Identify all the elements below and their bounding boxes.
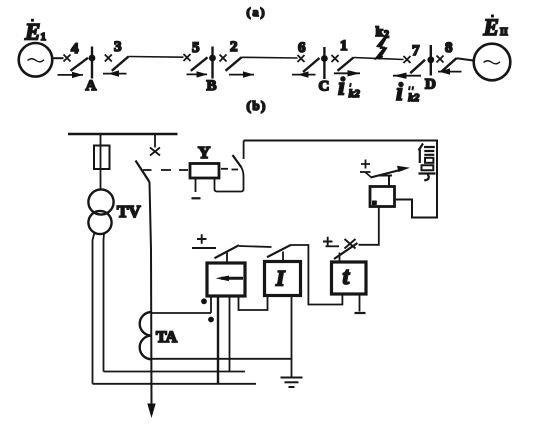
current arrow I''k2 under breaker 7 bbox=[393, 73, 421, 79]
svg-text:II: II bbox=[500, 27, 508, 38]
svg-text:k: k bbox=[376, 25, 384, 40]
circuit breaker QF blade bbox=[136, 161, 150, 183]
breaker 3 contact x bbox=[105, 55, 112, 62]
circuit breaker QF stub bbox=[154, 134, 156, 148]
trip coil Y box bbox=[190, 164, 219, 179]
TA secondary top lead bbox=[152, 312, 212, 314]
breaker 4 contact x bbox=[64, 55, 71, 62]
svg-text:C: C bbox=[319, 79, 330, 95]
svg-text:A: A bbox=[86, 78, 97, 94]
svg-text:1: 1 bbox=[340, 38, 348, 54]
breaker 3 blade bbox=[112, 57, 129, 71]
ground symbol bbox=[281, 378, 303, 388]
breaker 2 blade bbox=[226, 57, 242, 71]
trip linkage dashed bbox=[143, 169, 188, 171]
wire t-contact to signal relay bbox=[359, 207, 379, 245]
voltage transformer TV bbox=[88, 189, 113, 234]
line A-B bbox=[129, 56, 184, 59]
arrow under breaker 4 bbox=[58, 72, 84, 78]
breaker 6 blade bbox=[303, 58, 320, 72]
bus D bbox=[427, 45, 434, 76]
time relay contact plus bbox=[323, 237, 339, 247]
time relay contact x mark bbox=[345, 239, 356, 249]
svg-text:E: E bbox=[483, 15, 499, 40]
current relay contact blade bbox=[267, 245, 291, 261]
KA ground lead bbox=[291, 296, 293, 377]
svg-text:8: 8 bbox=[445, 40, 453, 56]
fault k2 lightning bolt bbox=[375, 37, 387, 59]
time relay box KT label t bbox=[332, 262, 367, 294]
svg-text:TA: TA bbox=[156, 329, 177, 346]
svg-text:I: I bbox=[275, 266, 286, 291]
svg-text:t: t bbox=[343, 264, 351, 290]
svg-text:D: D bbox=[425, 77, 436, 93]
signal relay notch bbox=[372, 201, 377, 206]
arrow under breaker 3 bbox=[103, 70, 127, 76]
junction dot 2 bbox=[208, 317, 214, 323]
svg-text:Y: Y bbox=[198, 143, 210, 162]
arrow under breaker 5 bbox=[187, 71, 208, 77]
breaker 7 contact x bbox=[404, 56, 411, 63]
fault k2 label bbox=[376, 25, 390, 41]
bus B bbox=[209, 47, 216, 79]
breaker 7 blade bbox=[410, 60, 425, 73]
bus C bbox=[321, 47, 328, 79]
time relay minus lead bbox=[355, 294, 366, 313]
label I''k2 bbox=[396, 79, 420, 106]
Y contact blade bbox=[233, 155, 242, 168]
svg-text:4: 4 bbox=[71, 41, 79, 57]
time relay contact blade bbox=[334, 243, 358, 261]
svg-text:(b): (b) bbox=[247, 98, 267, 113]
TA return rail bbox=[152, 358, 292, 360]
svg-text:5: 5 bbox=[192, 40, 200, 56]
fuse FU bbox=[94, 134, 110, 190]
wire contact1 to contact2 bbox=[239, 246, 272, 247]
svg-text:i: i bbox=[338, 74, 345, 101]
svg-text:1: 1 bbox=[41, 31, 47, 43]
svg-text:TV: TV bbox=[117, 202, 141, 221]
breaker 4 blade bbox=[71, 58, 89, 71]
svg-text:6: 6 bbox=[298, 40, 306, 56]
label E_II bbox=[483, 15, 508, 41]
TV secondary lead right bbox=[103, 234, 106, 372]
arrow under breaker 2 bbox=[229, 71, 254, 77]
Y minus sign bbox=[192, 197, 201, 199]
wire breaker 8 to gen2 bbox=[457, 58, 474, 60]
line B-C bbox=[242, 56, 298, 59]
TV secondary lead left bbox=[93, 233, 95, 384]
label I'k2 bbox=[338, 74, 360, 101]
Y right lead dashes bbox=[221, 168, 238, 171]
circuit breaker QF contact x bbox=[150, 148, 160, 156]
svg-text:2: 2 bbox=[230, 39, 238, 55]
KW to KA series wire bbox=[239, 296, 268, 310]
TV rail lower bbox=[93, 383, 257, 385]
plus supply for relays bbox=[192, 234, 216, 248]
primary line arrow bbox=[147, 404, 155, 419]
directional relay box KW bbox=[207, 263, 245, 296]
current transformer TA bbox=[140, 312, 152, 359]
arrow under breaker 8 bbox=[438, 68, 462, 74]
breaker 8 blade bbox=[442, 58, 457, 71]
bus A bbox=[89, 47, 96, 79]
current arrow I'k2 under breaker 1 bbox=[334, 70, 360, 76]
svg-text:i: i bbox=[396, 79, 403, 106]
arrow under breaker 6 bbox=[292, 71, 316, 77]
signal plus-minus mark bbox=[360, 160, 371, 173]
wire gen1 to breaker 4 bbox=[52, 57, 63, 59]
breaker 6 contact x bbox=[298, 55, 305, 62]
label E1 bbox=[24, 19, 46, 45]
KW voltage lead 1 bbox=[217, 296, 219, 384]
TV rail upper bbox=[104, 371, 246, 373]
breaker 1 contact x bbox=[332, 55, 339, 62]
breaker 5 contact x bbox=[184, 54, 191, 61]
breaker 5 blade bbox=[191, 57, 208, 71]
signal contact arrow to XinHao bbox=[365, 166, 410, 178]
current relay box KA label I bbox=[265, 262, 301, 296]
signal relay box bbox=[370, 187, 395, 207]
svg-text:E: E bbox=[24, 20, 40, 45]
busbar bbox=[68, 133, 178, 136]
Y contact upper wire bbox=[243, 141, 245, 160]
KW voltage lead 2 bbox=[229, 296, 231, 372]
breaker 1 blade bbox=[338, 58, 354, 71]
generator E2 bbox=[474, 44, 511, 81]
breaker 8 contact x bbox=[437, 56, 444, 63]
generator E1 bbox=[19, 43, 53, 77]
directional relay contact blade bbox=[215, 245, 240, 261]
KW current lead bbox=[210, 296, 212, 313]
primary conductor down bbox=[150, 182, 152, 404]
svg-text:(a): (a) bbox=[247, 5, 267, 19]
breaker 2 contact x bbox=[220, 55, 227, 62]
junction dot 1 bbox=[201, 298, 207, 304]
signal relay armature bbox=[379, 176, 392, 188]
svg-text:7: 7 bbox=[412, 43, 420, 59]
Y minus stub bbox=[195, 179, 197, 192]
wire loop to signal relay bbox=[244, 141, 437, 218]
line C-D with fault bbox=[354, 58, 404, 60]
svg-text:3: 3 bbox=[114, 39, 122, 55]
label XinHao (Chinese: signal) bbox=[419, 144, 436, 181]
svg-text:B: B bbox=[207, 78, 217, 94]
Y bottom loop bbox=[215, 168, 244, 192]
svg-text:k2: k2 bbox=[349, 88, 361, 100]
wire contact2 to time relay bbox=[291, 245, 342, 305]
svg-text:k2: k2 bbox=[408, 92, 420, 104]
